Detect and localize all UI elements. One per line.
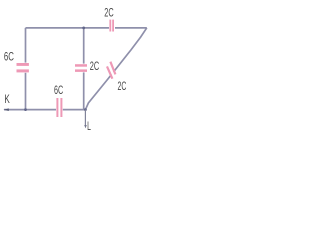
svg-text:2C: 2C [104,8,113,20]
capacitor 6C bottom plates [56,98,58,117]
svg-text:6C: 6C [54,85,63,97]
wire left vertical [25,28,27,110]
gap eraser diagonal capacitor [112,72,114,75]
gap eraser middle capacitor [82,64,86,73]
gap eraser top capacitor [109,26,115,30]
gap eraser bottom capacitor [56,107,63,112]
capacitor 2C top plates [109,20,111,32]
wire bottom rail [4,109,86,111]
wire top rail [26,27,147,29]
svg-text:6C: 6C [4,51,14,63]
terminal K arrow [3,108,8,111]
junction dot bottom-left [24,108,27,111]
wire middle vertical [83,28,85,110]
junction dot top of middle wire [82,27,85,30]
terminal L arrowhead [84,125,87,128]
svg-text:2C: 2C [90,61,99,73]
wire diagonal hypotenuse [85,28,146,110]
junction dot node L [84,108,87,111]
gap eraser left capacitor [23,63,27,73]
svg-text:2C: 2C [118,81,127,93]
capacitor 6C left plates [17,63,29,66]
capacitor 2C middle plates [75,64,87,67]
svg-text:L: L [87,121,91,133]
svg-text:K: K [4,94,10,106]
capacitor 2C diagonal plates [107,66,112,78]
terminal L stub wire [84,110,86,126]
